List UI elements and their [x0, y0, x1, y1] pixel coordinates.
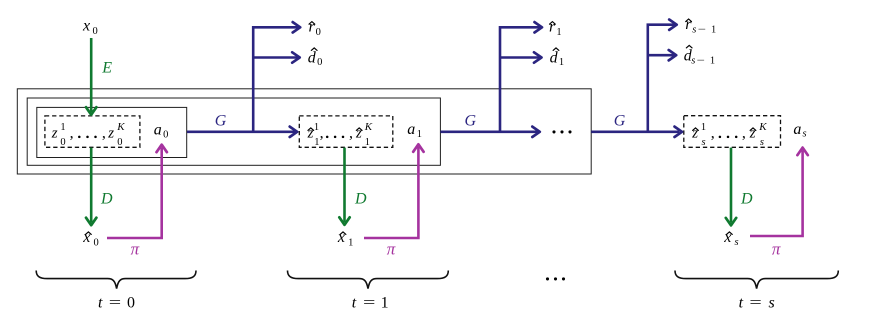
arrowhead pis up	[797, 148, 807, 156]
svg-text:s: s	[691, 56, 695, 67]
wire branch 2 d-horizontal	[500, 56, 539, 59]
wire G segment 1 (blue)	[187, 131, 296, 134]
dashed latent box z0	[45, 116, 140, 147]
middle box (first two steps container)	[27, 98, 440, 165]
svg-text:t: t	[98, 295, 103, 312]
underbrace t=0	[36, 271, 196, 289]
svg-text:K: K	[116, 121, 125, 133]
underbrace t=1	[288, 271, 449, 289]
svg-text:0: 0	[60, 137, 65, 148]
svg-text:s: s	[768, 295, 774, 312]
node r1 label	[549, 19, 562, 38]
svg-text:1: 1	[559, 57, 564, 68]
svg-text:a: a	[154, 122, 162, 139]
svg-text:0: 0	[127, 295, 135, 312]
arrowhead to d0	[292, 52, 300, 62]
svg-text:1: 1	[381, 295, 389, 312]
wire branch 3 d-horizontal	[648, 54, 674, 57]
svg-text:1: 1	[365, 137, 370, 148]
dashed latent box z1	[299, 116, 393, 147]
svg-text:−: −	[698, 24, 706, 35]
svg-text:=: =	[749, 295, 761, 312]
svg-text:,: ,	[711, 125, 715, 142]
wire G segment 2 (blue)	[440, 131, 537, 134]
arrowhead D1 down	[339, 217, 349, 225]
svg-text:1: 1	[417, 129, 422, 140]
decoder arrow D t0 (green)	[90, 148, 93, 223]
svg-text:0: 0	[317, 57, 322, 68]
node d0 label	[308, 48, 323, 68]
encoder arrow E (green)	[90, 38, 93, 112]
svg-text:−: −	[697, 56, 705, 67]
underbrace t=s	[675, 271, 838, 289]
wire branch 2 vertical	[500, 27, 540, 132]
label t=0	[98, 295, 135, 312]
wire branch 1 vertical	[253, 27, 298, 132]
svg-text:G: G	[614, 113, 626, 130]
node a1 label	[407, 121, 422, 140]
svg-text:K: K	[758, 121, 767, 133]
svg-text:s: s	[803, 128, 807, 139]
svg-text:x: x	[337, 229, 345, 246]
label t=s	[739, 295, 775, 312]
svg-text:1: 1	[348, 238, 353, 249]
svg-text:D: D	[354, 191, 367, 208]
svg-text:π: π	[772, 239, 781, 258]
arrowhead pi0 up	[157, 145, 167, 153]
svg-text:π: π	[387, 239, 396, 258]
arrowhead D0 down	[86, 218, 96, 226]
node a0 label	[154, 122, 169, 141]
svg-text:0: 0	[163, 130, 168, 141]
node z0 contents	[51, 121, 126, 148]
svg-text:1: 1	[60, 122, 65, 133]
svg-text:s: s	[735, 237, 739, 248]
dots on main wire	[552, 130, 571, 133]
arrowhead Ds down	[726, 218, 736, 226]
wire branch 3 vertical	[648, 25, 675, 132]
arrowhead into zs box	[675, 127, 683, 137]
arrowhead to ds-1	[669, 50, 677, 60]
svg-text:t: t	[352, 295, 357, 312]
svg-text:1: 1	[314, 122, 319, 133]
arrowhead pi1 up	[413, 144, 423, 152]
arrowhead to r1	[535, 22, 543, 32]
svg-text:z: z	[51, 125, 58, 141]
node as label	[793, 121, 806, 139]
svg-text:s: s	[702, 137, 706, 148]
svg-text:,: ,	[349, 125, 353, 142]
label t=1	[352, 295, 389, 312]
svg-text:1: 1	[711, 24, 716, 35]
policy wire pi t0 (magenta)	[107, 147, 162, 238]
outer box (rollout container)	[17, 89, 591, 174]
svg-text:G: G	[465, 113, 477, 130]
policy wire pi t1 (magenta)	[364, 147, 418, 238]
svg-text:x: x	[82, 18, 90, 35]
svg-text:G: G	[215, 113, 227, 130]
wire G segment 3 (blue)	[591, 131, 679, 134]
svg-text:0: 0	[117, 137, 122, 148]
svg-text:z: z	[107, 125, 114, 141]
node rs-1 label	[685, 16, 716, 35]
arrowhead to r0	[293, 22, 301, 32]
svg-text:E: E	[101, 60, 112, 77]
svg-text:t: t	[739, 295, 744, 312]
arrowhead E down	[86, 107, 96, 115]
svg-text:d: d	[308, 50, 317, 67]
node xhat1 label	[337, 229, 353, 249]
node xhats label	[723, 229, 738, 248]
arrowhead into z1 box	[290, 127, 298, 137]
arrowhead to d1	[534, 52, 542, 62]
svg-text:a: a	[793, 121, 801, 138]
node xhat0 label	[82, 229, 98, 249]
node d1 label	[550, 48, 565, 68]
node x0 label	[82, 18, 98, 37]
svg-text:K: K	[364, 121, 373, 133]
svg-text:a: a	[407, 121, 415, 138]
decoder arrow D t1 (green)	[343, 148, 346, 223]
svg-text:0: 0	[94, 238, 99, 249]
node zs contents	[691, 121, 767, 148]
arrowhead to dots	[532, 127, 540, 137]
svg-text:1: 1	[701, 122, 706, 133]
node r0 label	[309, 19, 321, 38]
svg-text:,: ,	[320, 125, 324, 142]
policy wire pi ts (magenta)	[750, 150, 803, 236]
svg-text:D: D	[100, 191, 113, 208]
decoder arrow D ts (green)	[730, 148, 733, 223]
svg-text:,: ,	[70, 125, 74, 142]
dots between braces	[546, 277, 565, 280]
svg-text:0: 0	[93, 26, 98, 37]
arrowhead to rs-1	[669, 20, 677, 30]
svg-text:D: D	[740, 191, 753, 208]
node ds-1 label	[684, 45, 715, 66]
svg-text:s: s	[692, 24, 696, 35]
svg-text:d: d	[550, 50, 559, 67]
wire branch 1 d-horizontal	[253, 56, 297, 59]
svg-text:=: =	[363, 295, 375, 312]
svg-text:x: x	[82, 229, 90, 246]
dashed latent box zs	[684, 116, 781, 148]
svg-text:1: 1	[556, 27, 561, 38]
svg-text:,: ,	[742, 125, 746, 142]
svg-text:π: π	[131, 239, 140, 258]
svg-text:=: =	[109, 295, 121, 312]
svg-text:s: s	[760, 137, 764, 148]
svg-text:0: 0	[316, 27, 321, 38]
svg-text:1: 1	[710, 56, 715, 67]
node z1 contents	[307, 121, 373, 148]
inner box (t=0 state cell)	[37, 107, 187, 157]
svg-text:,: ,	[102, 125, 106, 142]
svg-text:x: x	[723, 229, 731, 246]
